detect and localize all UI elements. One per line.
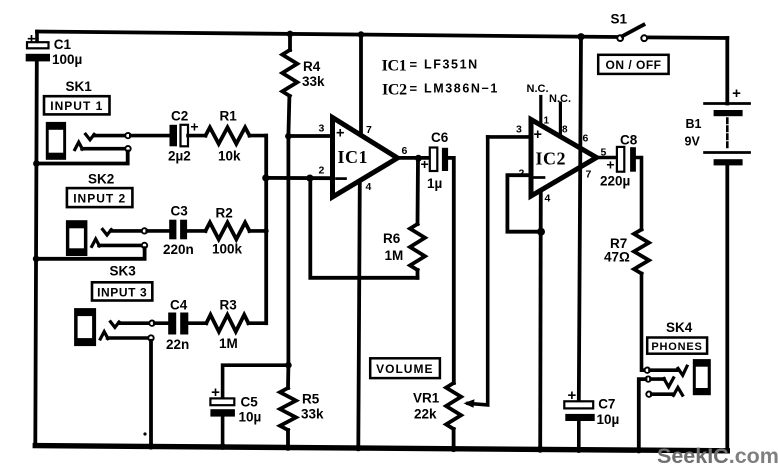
pin 4 stub IC1 [358,181,360,448]
N.C. stub pin 1 [539,97,542,126]
node left rail SK1 sleeve [33,160,40,167]
svg-text:R3: R3 [220,298,238,313]
jack SK3 sleeve contact [100,332,153,446]
jack SK1 body [46,122,66,160]
pin 4 stub IC2 to ground [538,190,542,448]
jack SK1 tip contact [86,133,170,140]
svg-text:LF351N: LF351N [424,58,479,72]
op-amp IC1 [333,118,398,198]
label INPUT 2 box [67,188,132,207]
svg-text:ON / OFF: ON / OFF [606,58,662,72]
node IC2 pin4 at ground rail [537,446,544,453]
svg-text:+: + [534,127,542,143]
resistor R3 [188,298,266,352]
svg-text:INPUT 2: INPUT 2 [73,192,126,206]
node summing junction on pin2 row [262,174,269,181]
svg-text:+: + [27,31,36,48]
capacitor C8 [600,133,638,189]
node top rail at R4 [287,31,294,38]
svg-text:1M: 1M [385,248,404,263]
svg-text:=: = [410,57,418,72]
svg-text:IC1: IC1 [338,147,369,167]
svg-text:3: 3 [319,123,325,135]
svg-text:3: 3 [516,124,522,136]
node R4 at IC1 pin3 [285,133,292,140]
wire right battery top lead [725,38,729,104]
svg-text:PHONES: PHONES [651,341,702,353]
svg-text:R2: R2 [216,206,233,221]
wire IC2 pin3 row [488,135,529,139]
battery B1 [685,85,750,165]
svg-text:C1: C1 [54,37,72,52]
potentiometer VR1 [413,383,461,449]
label PHONES box [647,338,707,354]
resistor R7 [604,230,649,371]
jack SK1 sleeve contact [36,142,130,163]
svg-text:+: + [211,384,220,401]
wire IC1 output [398,156,430,160]
svg-text:VOLUME: VOLUME [376,362,433,376]
svg-text:4: 4 [366,181,372,193]
svg-text:+: + [732,85,741,102]
node top rail at IC1 pin7 [358,31,365,38]
node left rail SK2 sleeve [33,255,40,262]
node top rail at IC2 pin6 [577,33,584,40]
svg-text:100k: 100k [212,242,243,257]
node SK4 ground at rail [636,447,643,454]
label INPUT 3 box [92,282,152,300]
wire C8 to R7 [636,158,642,230]
svg-text:220µ: 220µ [600,174,630,189]
svg-text:R5: R5 [302,392,320,407]
svg-text:+: + [606,157,614,173]
svg-text:6: 6 [583,133,589,145]
svg-text:22n: 22n [166,337,189,352]
wire battery bottom lead to ground rail [725,165,729,450]
jack SK3 tip contact [111,321,169,328]
wire VR1 wiper to IC2 pin3 [468,137,488,405]
node SK3 sleeve at ground rail [148,443,155,450]
svg-text:10k: 10k [218,149,241,164]
jack SK4 body [693,359,711,395]
label legend IC1 = LF351N [382,57,479,75]
svg-text:IC1: IC1 [382,58,407,75]
svg-text:33k: 33k [302,74,325,89]
svg-text:33k: 33k [301,407,324,422]
svg-text:SK2: SK2 [88,172,114,187]
svg-text:C2: C2 [171,109,188,124]
wire feedback pin2 to R6 [310,178,417,278]
svg-text:C5: C5 [241,395,259,410]
svg-text:47Ω: 47Ω [604,250,630,265]
svg-text:C6: C6 [431,130,449,145]
svg-text:INPUT 3: INPUT 3 [97,285,147,299]
wire bias line R4 to R5/C5 [286,136,290,365]
label VOLUME box [370,358,440,378]
capacitor C2 [168,109,199,164]
wire summing bus [264,136,268,324]
svg-text:N.C.: N.C. [549,93,571,105]
N.C. stub pin 8 [559,103,562,137]
node VR1 at ground rail [450,446,457,453]
node pin2 loop joins pin4 [537,228,545,236]
svg-text:R1: R1 [220,109,238,124]
svg-text:+: + [421,156,429,172]
svg-text:6: 6 [402,145,408,157]
svg-text:C4: C4 [170,298,188,313]
svg-text:1: 1 [544,116,550,127]
svg-text:S1: S1 [611,12,628,27]
wire C6 to VR1 [448,158,454,383]
svg-text:9V: 9V [685,135,701,149]
capacitor C4 [166,298,189,353]
svg-text:7: 7 [586,169,592,181]
svg-text:+: + [568,387,577,404]
label ON/OFF box [598,55,668,74]
wire IC2 output [597,156,617,160]
svg-text:R6: R6 [383,231,401,246]
op-amp IC2 [531,120,597,197]
label legend IC2 = LM386N-1 [382,81,499,99]
svg-text:10µ: 10µ [239,410,262,425]
svg-text:SK1: SK1 [66,79,93,94]
wire top supply rail left section [37,32,617,38]
svg-text:8: 8 [562,125,568,136]
jack SK2 sleeve contact [36,239,147,259]
resistor R4 [282,34,325,136]
svg-text:IC2: IC2 [382,82,407,99]
svg-text:+: + [190,119,198,135]
wire C5 branch [223,365,289,398]
svg-text:100µ: 100µ [52,52,82,67]
resistor R5 [280,365,324,447]
node IC1 output [415,155,422,162]
svg-text:C3: C3 [171,204,189,219]
svg-text:SeekIC.com: SeekIC.com [657,444,778,468]
svg-text:1µ: 1µ [427,176,442,191]
svg-text:IC2: IC2 [536,149,567,169]
resistor R6 [383,158,425,278]
svg-text:2: 2 [519,168,525,180]
switch S1 [611,12,648,42]
svg-text:+: + [336,126,344,142]
svg-text:1M: 1M [219,336,238,351]
jack SK4 switch contact [639,376,674,450]
wire left ground rail [35,61,37,445]
pin 7 stub IC1 [359,35,363,136]
capacitor C1 [26,31,83,68]
wire IC1 pin2 row [266,176,331,180]
svg-text:220n: 220n [163,242,194,257]
capacitor C5 [210,384,261,446]
svg-text:7: 7 [366,124,372,136]
svg-text:22k: 22k [414,407,437,422]
resistor R2 [187,206,269,257]
jack SK3 body [74,308,96,346]
node IC1 pin4 at ground rail [355,445,362,452]
node R5 at ground rail [285,444,292,451]
svg-text:N.C.: N.C. [527,83,549,95]
stray ink dot [143,432,146,435]
jack SK2 body [66,220,88,256]
svg-text:INPUT 1: INPUT 1 [50,99,103,113]
jack SK4 tip contact [645,366,687,375]
pin 2 loop wire IC2 [507,175,541,232]
capacitor C6 [421,130,449,191]
svg-text:2µ2: 2µ2 [168,149,191,164]
jack SK2 tip contact [103,228,170,235]
resistor R1 [188,109,266,164]
svg-text:VR1: VR1 [413,391,440,406]
node C5 at ground rail [219,443,226,450]
capacitor C7 [564,387,619,450]
svg-text:10µ: 10µ [597,412,620,427]
capacitor C3 [163,204,194,258]
wiper arrowhead [464,399,475,408]
svg-text:2: 2 [319,165,325,177]
svg-text:C7: C7 [598,397,615,412]
svg-text:C8: C8 [620,133,638,148]
svg-text:4: 4 [545,193,551,205]
label INPUT 1 box [44,96,110,114]
svg-text:B1: B1 [686,117,702,131]
wire top supply rail right section [647,36,727,40]
wire IC1 pin3 row [288,134,331,138]
node C7 at ground rail [576,446,583,453]
pin 6/7 supply-bypass line IC2 [579,37,581,402]
svg-text:SK4: SK4 [666,320,693,335]
jack SK4 sleeve contact [646,387,682,397]
svg-text:LM386N−1: LM386N−1 [424,82,499,96]
wire bottom ground rail [35,446,727,451]
node bias at C5 branch [285,362,292,369]
svg-text:SK3: SK3 [110,264,137,279]
svg-text:R4: R4 [303,59,321,74]
node IC1 pin2 feedback junction [306,175,313,182]
svg-text:=: = [410,81,418,96]
